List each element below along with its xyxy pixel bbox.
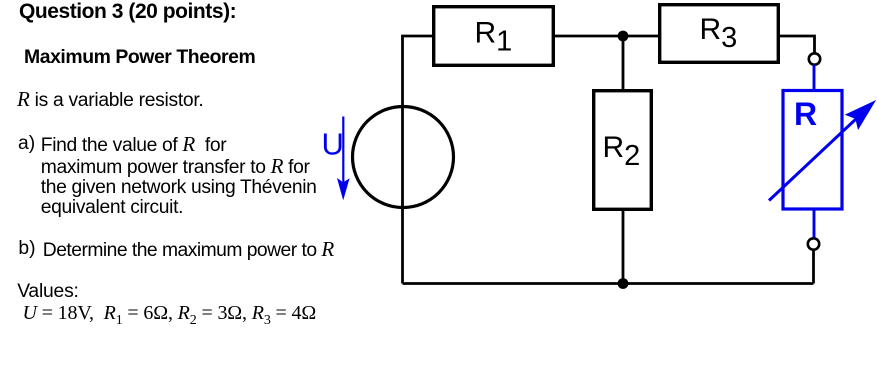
terminal open circle (top) (809, 53, 820, 64)
variable resistor R (box with diagonal arrow) (783, 91, 842, 210)
heading "Maximum Power Theorem" (24, 47, 255, 67)
line "Values:" (17, 282, 78, 302)
terminal open circle (bottom) (808, 238, 819, 249)
svg-text:R1: R1 (475, 17, 513, 58)
U polarity arrow (342, 117, 344, 185)
line "R is a variable resistor." (17, 89, 203, 111)
wire R3 to top terminal (778, 36, 814, 53)
wire blue stub above variable resistor (813, 65, 816, 91)
wire bottom terminal to bottom rail (812, 250, 815, 284)
values formula line (23, 303, 317, 331)
node junction (top, R1/R2/R3) (618, 31, 629, 42)
voltage source U (circle) (353, 107, 454, 208)
wire R1 to R3 (553, 35, 659, 38)
node junction (bottom) (618, 278, 629, 289)
wire R2 top stub (622, 36, 625, 91)
wire bottom horizontal (403, 282, 814, 285)
resistor R3 (660, 5, 779, 63)
wire R2 bottom stub (622, 209, 625, 283)
svg-text:R: R (794, 96, 817, 132)
heading "Question 3 (20 points):" (19, 1, 236, 22)
item b) text (43, 239, 334, 261)
wire top from left corner to R1 (401, 35, 434, 38)
svg-text:U: U (322, 127, 344, 162)
item a) marker (18, 134, 35, 154)
wire left vertical (source branch) (401, 36, 404, 284)
item b) marker (18, 239, 35, 259)
wire blue stub below variable resistor (813, 209, 816, 238)
resistor R1 (434, 7, 554, 66)
resistor R2 (594, 91, 652, 210)
svg-text:R2: R2 (603, 131, 641, 172)
svg-text:R3: R3 (700, 13, 738, 54)
item a) text (41, 134, 317, 218)
